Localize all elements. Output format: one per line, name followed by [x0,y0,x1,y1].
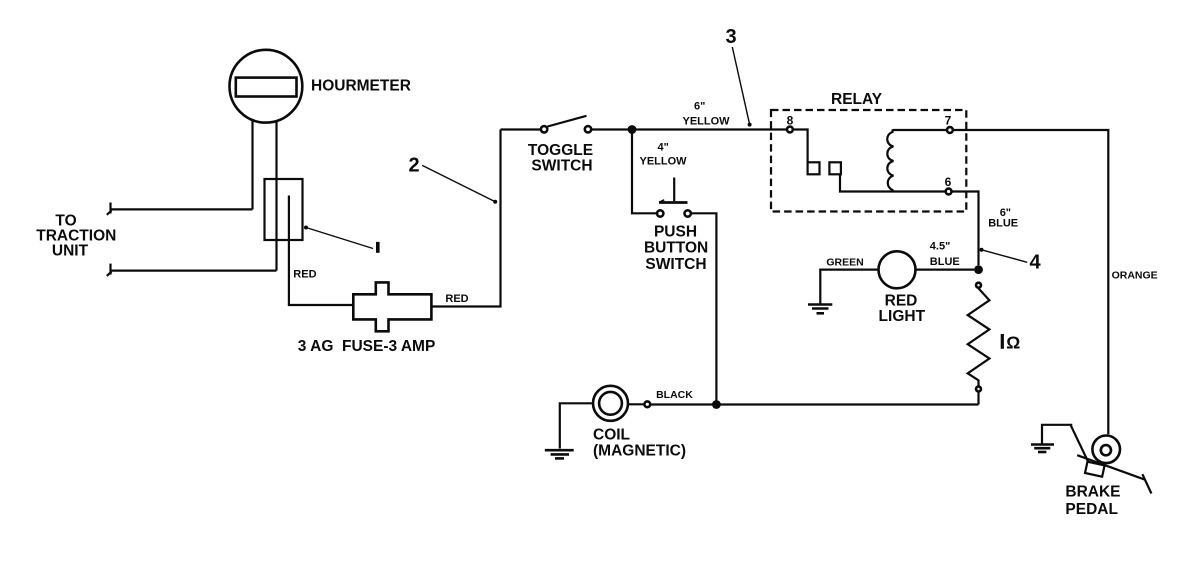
svg-text:COIL: COIL [593,427,630,444]
svg-text:YELLOW: YELLOW [683,116,731,128]
wire hourmeter right lead [275,121,277,271]
wire coil top to pin 7 [893,129,948,131]
brake pedal arm [1071,425,1152,494]
svg-text:2: 2 [409,155,420,177]
label TO TRACTION UNIT [36,213,116,260]
ground (brake pedal) [1031,445,1054,453]
svg-text:SWITCH: SWITCH [531,157,592,174]
relay contact b [829,162,841,174]
svg-text:UNIT: UNIT [52,243,89,260]
wire to traction unit (top) [111,208,253,210]
svg-text:BUTTON: BUTTON [644,240,708,257]
svg-text:RED: RED [445,293,468,305]
svg-text:ORANGE: ORANGE [1112,269,1158,281]
ground (red light) [808,305,832,314]
svg-text:RED: RED [293,269,316,281]
relay K1 enclosure [771,110,966,212]
hourmeter M1 body [230,50,303,123]
svg-text:6": 6" [694,100,705,112]
red light DS1 [879,251,916,288]
callout 1 [376,242,380,253]
wire junction to relay pin 8 (6in yellow) [632,128,786,130]
svg-text:BRAKE: BRAKE [1065,483,1120,500]
svg-text:RELAY: RELAY [831,91,883,108]
svg-text:PEDAL: PEDAL [1065,501,1118,518]
relay pin 8 [787,113,794,132]
hourmeter display window [236,78,297,97]
fuse F1 body [353,282,431,331]
wire fuse holder to fuse F1 [289,196,353,306]
wire coil to ground [560,403,592,448]
junction node C [712,400,721,409]
fuse holder 1 [265,179,303,240]
junction node B [974,265,983,274]
terminal tick (top) [107,203,112,215]
svg-text:3: 3 [726,26,737,48]
label PUSH BUTTON SWITCH [644,224,708,273]
svg-text:3 AG FUSE-3 AMP: 3 AG FUSE-3 AMP [298,338,436,355]
wire riser to toggle switch [501,128,541,130]
relay pin 7 [945,113,953,133]
label BRAKE PEDAL [1065,483,1120,517]
svg-text:GREEN: GREEN [826,256,863,268]
relay moving contact arm from pin 8 [793,130,807,163]
wire pin 6 to junction node B (6in blue) [952,192,978,266]
relay coil [887,130,893,192]
svg-text:(MAGNETIC): (MAGNETIC) [593,443,686,460]
label 1 ohm [1002,333,1020,353]
wire junction to push button [632,130,656,214]
svg-text:SWITCH: SWITCH [645,256,706,273]
svg-text:LIGHT: LIGHT [879,308,926,325]
wire red light to junction (4.5in blue) [916,269,974,271]
label RED LIGHT [879,293,926,325]
svg-text:7: 7 [945,113,952,127]
svg-text:4": 4" [658,142,669,154]
brake pedal roller [1092,436,1120,464]
svg-text:TOGGLE: TOGGLE [528,142,593,159]
label TOGGLE SWITCH [528,142,593,175]
svg-text:BLUE: BLUE [988,218,1018,230]
svg-text:PUSH: PUSH [654,224,697,241]
svg-text:HOURMETER: HOURMETER [311,78,411,95]
svg-text:BLUE: BLUE [930,256,960,268]
relay pin 6 [945,175,952,194]
callout 3 leader [732,47,751,127]
wire fuse to toggle riser [431,130,500,307]
wire to traction unit (bottom) [111,270,277,272]
wire black bus [651,403,979,405]
svg-text:4.5": 4.5" [930,241,951,253]
label COIL (MAGNETIC) [593,427,686,460]
ground (coil) [545,450,574,458]
wire toggle to junction [592,128,632,130]
coil terminal [644,401,650,407]
resistor R1 [968,283,990,405]
svg-text:YELLOW: YELLOW [640,155,688,167]
wire hourmeter left lead [251,119,253,209]
svg-text:4: 4 [1030,252,1042,274]
callout 2 leader [422,165,497,203]
wire push button to black bus [692,213,717,404]
callout 1 leader [304,226,373,249]
relay contact a [808,162,820,174]
wire contact b to bottom rail [840,174,946,191]
svg-text:6: 6 [945,175,952,189]
junction node A [628,125,637,134]
wire red light to ground (green) [820,270,878,304]
coil L1 (magnetic) [593,386,628,421]
wire pin 7 to brake pedal (orange) [954,130,1109,434]
brake pedal pad [1085,462,1105,477]
callout 4 leader [980,248,1028,262]
push button switch S2 [657,178,691,217]
terminal tick (bottom) [107,264,112,276]
svg-text:Ω: Ω [1006,333,1020,353]
wire coil to terminal [629,403,645,405]
toggle switch S1 [541,116,591,133]
svg-text:8: 8 [787,113,794,127]
wire brake pedal to ground [1042,425,1072,444]
svg-text:BLACK: BLACK [656,389,693,401]
